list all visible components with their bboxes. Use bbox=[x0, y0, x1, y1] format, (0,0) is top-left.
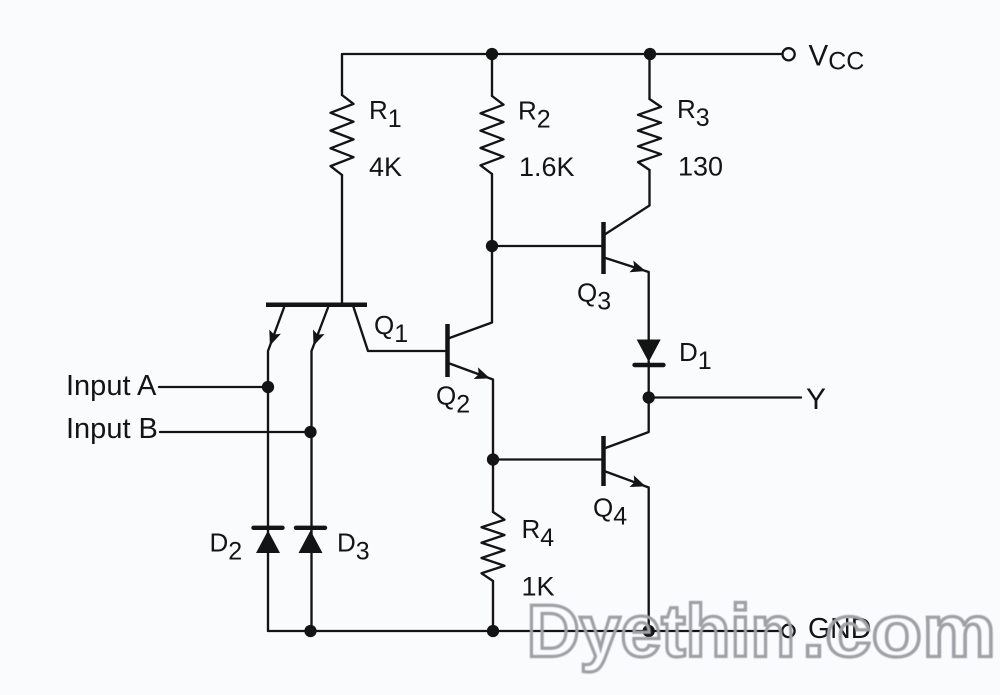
svg-text:4K: 4K bbox=[369, 152, 402, 182]
svg-text:Dyethin: Dyethin bbox=[527, 590, 796, 673]
svg-text:.com: .com bbox=[802, 590, 996, 673]
svg-text:Input B: Input B bbox=[66, 413, 158, 445]
svg-text:Y: Y bbox=[806, 383, 826, 416]
svg-text:Input A: Input A bbox=[66, 370, 157, 402]
svg-text:130: 130 bbox=[678, 152, 723, 182]
svg-text:1.6K: 1.6K bbox=[519, 152, 575, 182]
